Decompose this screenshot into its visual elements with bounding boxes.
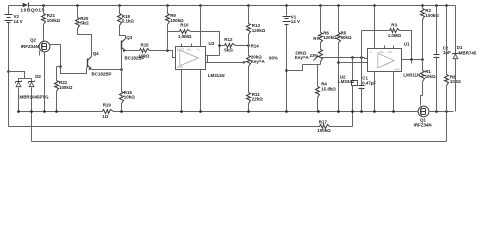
svg-text:10kΩ: 10kΩ (425, 74, 436, 79)
svg-text:100kΩ: 100kΩ (47, 18, 61, 23)
svg-text:LM311N: LM311N (208, 73, 225, 78)
svg-text:1µF: 1µF (443, 50, 451, 55)
svg-text:R10: R10 (180, 23, 189, 28)
svg-text:LM311N: LM311N (403, 72, 420, 77)
svg-text:5kΩ: 5kΩ (80, 21, 89, 26)
svg-text:10kΩ: 10kΩ (124, 95, 135, 100)
svg-text:Key=A: Key=A (295, 55, 310, 60)
svg-text:V+: V+ (369, 50, 373, 54)
svg-text:10kΩ: 10kΩ (139, 53, 150, 58)
svg-text:R15: R15 (141, 43, 150, 48)
svg-text:Q2: Q2 (30, 38, 36, 43)
svg-text:R3: R3 (391, 23, 397, 28)
svg-text:50kΩ: 50kΩ (341, 35, 352, 40)
svg-text:1Ω: 1Ω (102, 114, 108, 119)
svg-text:MBR745: MBR745 (459, 51, 477, 56)
svg-text:BC182BP: BC182BP (92, 72, 112, 77)
svg-text:10BQ015: 10BQ015 (20, 7, 44, 13)
svg-text:Key=A: Key=A (251, 59, 266, 64)
svg-text:100kΩ: 100kΩ (425, 13, 439, 18)
svg-text:100kΩ: 100kΩ (59, 85, 73, 90)
svg-text:BAL: BAL (187, 47, 192, 51)
svg-text:14 V: 14 V (291, 19, 300, 24)
svg-text:IRFZ34N: IRFZ34N (21, 44, 39, 49)
svg-text:B/STB: B/STB (177, 47, 185, 51)
svg-text:BAL: BAL (379, 50, 384, 54)
svg-text:5kΩ: 5kΩ (224, 48, 233, 53)
svg-text:R7: R7 (313, 36, 319, 41)
svg-text:5.1kΩ: 5.1kΩ (122, 19, 135, 24)
svg-text:IRFZ34N: IRFZ34N (414, 122, 432, 127)
svg-text:GND: GND (394, 68, 400, 72)
svg-text:R12: R12 (224, 37, 233, 42)
svg-text:LM334Z: LM334Z (338, 79, 355, 84)
svg-text:R14: R14 (251, 43, 260, 48)
svg-text:R19: R19 (103, 103, 112, 108)
svg-text:100kΩ: 100kΩ (317, 128, 331, 133)
svg-text:U1: U1 (404, 42, 410, 47)
svg-text:V+: V+ (197, 47, 201, 51)
svg-text:Q4: Q4 (93, 51, 99, 56)
svg-text:B/S: B/S (388, 50, 392, 54)
svg-text:14 V: 14 V (14, 19, 23, 24)
svg-text:15.8kΩ: 15.8kΩ (321, 86, 336, 91)
svg-text:120kΩ: 120kΩ (323, 35, 337, 40)
svg-text:60%: 60% (269, 56, 278, 61)
svg-text:GND: GND (177, 65, 183, 69)
svg-text:R17: R17 (319, 119, 328, 124)
svg-text:Q3: Q3 (126, 35, 132, 40)
svg-text:U3: U3 (209, 41, 215, 46)
svg-text:1.0MΩ: 1.0MΩ (178, 34, 192, 39)
svg-text:120kΩ: 120kΩ (252, 28, 266, 33)
svg-text:1.0MΩ: 1.0MΩ (388, 33, 402, 38)
svg-text:22kΩ: 22kΩ (252, 97, 263, 102)
svg-text:D2: D2 (35, 74, 41, 79)
svg-text:D1: D1 (457, 45, 463, 50)
